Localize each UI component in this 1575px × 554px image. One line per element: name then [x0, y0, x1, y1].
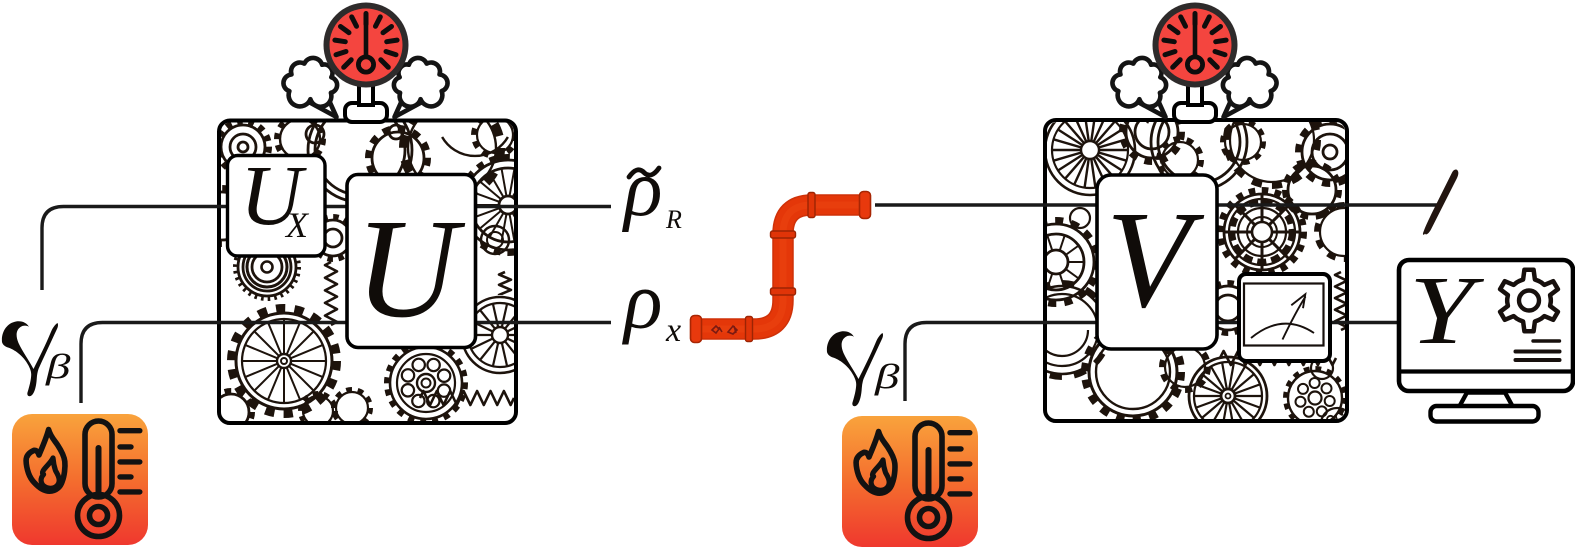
machine U box: [219, 121, 516, 424]
U card: [347, 175, 476, 348]
wire input to U_X (top left, open end): [42, 207, 611, 291]
wire gamma-beta input to V and output to Y: [905, 323, 1399, 402]
pipe flanges: [691, 192, 871, 343]
svg-text:V: V: [1106, 183, 1205, 337]
pressure gauge machine U: [324, 3, 409, 123]
pressure gauge machine V: [1153, 3, 1238, 123]
discard slash: [1423, 170, 1458, 235]
svg-text:Y: Y: [1409, 258, 1485, 365]
computer monitor Y: [1399, 260, 1573, 422]
svg-text:β: β: [874, 358, 900, 397]
pipe graffiti: [712, 326, 737, 334]
monitor text lines: [1516, 341, 1560, 360]
wire pipe to V and discard output: [875, 203, 1438, 206]
steam puff left of gauge U: [283, 58, 337, 117]
svg-text:ρ: ρ: [621, 258, 662, 346]
furnace icon left: [12, 414, 148, 545]
svg-text:X: X: [284, 205, 310, 245]
svg-text:R: R: [665, 205, 682, 234]
steam puff right of gauge V: [1223, 58, 1277, 117]
steam puff left of gauge V: [1112, 58, 1166, 117]
furnace icon right: [842, 416, 978, 547]
svg-text:β: β: [45, 348, 71, 387]
U_X card: [228, 156, 326, 257]
wire gamma-beta input to U (bottom left): [81, 323, 611, 404]
meter card: [1239, 274, 1330, 361]
label gamma_beta left: [2, 321, 58, 396]
gear art machine V: [1015, 87, 1372, 440]
pipe collars: [746, 193, 816, 342]
svg-text:U: U: [355, 189, 466, 347]
V card: [1097, 175, 1217, 349]
red pipe connecting machines: [701, 205, 866, 329]
svg-text:x: x: [665, 312, 681, 349]
label gamma_beta right: [827, 331, 883, 406]
svg-text:ρ: ρ: [621, 145, 662, 233]
machine V box: [1045, 120, 1347, 421]
steam puff right of gauge U: [394, 58, 448, 117]
gear art machine U: [195, 98, 557, 433]
gear icon on monitor: [1500, 270, 1558, 331]
